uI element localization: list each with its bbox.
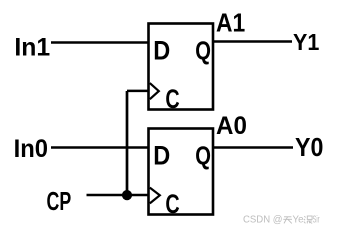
svg-text:C: C xyxy=(165,188,179,219)
svg-text:Ye: Ye xyxy=(293,215,304,226)
clock edge triangle A1.C xyxy=(150,83,159,99)
flip-flop A0 body xyxy=(149,129,214,215)
watermark glyph tian xyxy=(283,217,292,224)
svg-text:C: C xyxy=(165,83,179,114)
wire CP riser vertical xyxy=(126,91,129,195)
svg-text:CSDN @: CSDN @ xyxy=(243,215,283,226)
wire In0 to A0.D xyxy=(51,146,149,148)
svg-text:Y0: Y0 xyxy=(295,134,323,162)
svg-text:A1: A1 xyxy=(216,10,245,38)
svg-text:Q: Q xyxy=(195,142,211,170)
svg-text:CP: CP xyxy=(47,186,72,216)
svg-text:D: D xyxy=(153,141,170,171)
svg-text:Q: Q xyxy=(195,37,211,65)
wire CP branch to A1.C xyxy=(127,90,149,93)
svg-text:D: D xyxy=(153,36,170,66)
clock edge triangle A0.C xyxy=(150,188,160,204)
flip-flop A1 body xyxy=(149,24,214,110)
wire In1 to A1.D xyxy=(51,41,149,43)
junction dot CP node xyxy=(122,190,132,200)
svg-text:Sir: Sir xyxy=(313,215,320,226)
svg-text:Y1: Y1 xyxy=(293,29,319,55)
wire A0.Q to Y0 xyxy=(213,146,293,148)
svg-text:A0: A0 xyxy=(216,112,247,140)
watermark CSDN text xyxy=(243,215,320,226)
watermark glyph lang xyxy=(304,216,312,223)
wire A1.Q to Y1 xyxy=(213,40,292,42)
wire CP horizontal xyxy=(87,194,149,197)
svg-text:In1: In1 xyxy=(14,35,50,62)
svg-text:In0: In0 xyxy=(14,135,48,163)
